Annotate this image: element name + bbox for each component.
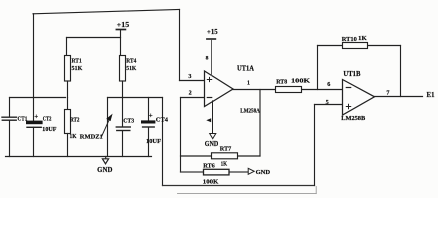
svg-text:CT3: CT3 [123, 117, 134, 124]
resistor RT6 [204, 169, 230, 175]
svg-text:1: 1 [247, 81, 250, 87]
wire RT4 bottom lead to node B [122, 81, 124, 98]
svg-text:10UF: 10UF [42, 126, 56, 133]
node A wire [10, 97, 66, 99]
wire RT2 bottom lead [67, 134, 69, 157]
capacitor CT3 [116, 127, 130, 131]
svg-text:RT6: RT6 [203, 162, 215, 169]
wire RT2 top lead [67, 98, 69, 110]
resistor RT4 [120, 56, 126, 82]
svg-text:RT7: RT7 [220, 146, 232, 153]
wire scan ghost line [178, 193, 317, 195]
svg-text:RMDZ1: RMDZ1 [80, 133, 103, 140]
resistor RT10 [343, 43, 368, 49]
wire left drop from top loop to node A / CT2 [33, 14, 35, 121]
wire pin5 horizontal into U1B [315, 104, 343, 106]
wire RT1 top lead [66, 38, 68, 56]
resistor RT2 [65, 110, 71, 134]
svg-text:+: + [149, 112, 153, 120]
wire CT3 bottom lead [122, 131, 124, 157]
svg-text:1K: 1K [70, 133, 78, 140]
svg-text:51K: 51K [72, 65, 84, 72]
resistor RT1 [65, 56, 71, 82]
wire CT1 top lead [9, 98, 11, 117]
wire pin2 drop [180, 98, 182, 173]
svg-text:5: 5 [326, 99, 329, 106]
wire up to pin 5 [314, 105, 316, 186]
wire RT1 bottom lead to node A [67, 81, 69, 98]
svg-text:6: 6 [327, 81, 330, 88]
svg-text:+15: +15 [117, 21, 130, 29]
wire pin3 horizontal into U1A [180, 80, 205, 82]
op-amp U1A [205, 71, 234, 107]
wire horizontal +15 rail to RT1 [67, 37, 121, 39]
wire RT7 feedback drop [259, 90, 261, 157]
svg-text:RT8: RT8 [276, 78, 287, 85]
svg-text:100K: 100K [291, 78, 310, 85]
svg-text:UT1A: UT1A [237, 65, 254, 72]
wire U1A pin 4 stem [212, 101, 214, 133]
svg-text:8: 8 [206, 56, 209, 62]
svg-text:1K: 1K [358, 35, 367, 42]
svg-text:E1: E1 [427, 92, 436, 99]
svg-text:RT10: RT10 [342, 36, 357, 43]
wire top loop horizontal [33, 10, 180, 14]
wire CT2 bottom lead [33, 127, 35, 156]
ground bus wire [6, 156, 152, 158]
pin 4 marker [206, 118, 211, 122]
svg-text:CT1: CT1 [18, 116, 28, 123]
svg-text:100K: 100K [203, 178, 219, 185]
capacitor CT2 (polarized) [26, 121, 43, 128]
wire pin3 drop from top loop [179, 10, 181, 81]
wire RT10 feedback left drop [317, 46, 319, 90]
ground symbol below pot [105, 157, 107, 159]
wire CT1 bottom lead [9, 121, 11, 157]
svg-text:7: 7 [386, 90, 389, 97]
wire U1A output row [233, 89, 343, 91]
svg-text:GND: GND [256, 169, 271, 176]
svg-text:RT2: RT2 [70, 116, 80, 123]
svg-text:1K: 1K [221, 161, 228, 168]
resistor RT7 [212, 153, 238, 159]
svg-text:10UF: 10UF [146, 138, 161, 145]
GND port arrow [248, 168, 254, 174]
potentiometer RMDZ1 body [107, 98, 109, 157]
svg-text:CT2: CT2 [43, 116, 52, 123]
svg-text:2: 2 [189, 90, 192, 97]
svg-text:LM258B: LM258B [341, 115, 366, 122]
resistor RT8 [276, 87, 302, 93]
op-amp U1B [343, 80, 375, 116]
capacitor CT4 (polarized) [141, 120, 155, 127]
svg-text:RT1: RT1 [72, 58, 82, 65]
wire U1A V+ stem pin 8 [211, 40, 213, 75]
svg-text:GND: GND [97, 167, 112, 174]
wire RT10 row [318, 45, 401, 47]
svg-text:GND: GND [205, 141, 219, 148]
wire RT6 row [181, 171, 249, 173]
wire +15 stem down to RT4 [120, 30, 122, 55]
svg-text:+15: +15 [207, 28, 218, 36]
svg-text:+: + [34, 113, 38, 121]
svg-text:RT4: RT4 [126, 58, 137, 65]
wire pin2 horizontal into U1A [181, 97, 205, 99]
wire RT7 row [181, 155, 261, 157]
svg-text:51K: 51K [126, 65, 137, 72]
wire U1B output feedback drop [400, 46, 402, 97]
ground symbol U1A [210, 134, 216, 139]
wire CT3 top lead [122, 98, 124, 127]
wire CT4 top lead [148, 98, 150, 121]
svg-text:CT4: CT4 [156, 117, 169, 124]
node B wire [108, 97, 163, 99]
power +15 bridge bar [116, 29, 125, 31]
wire node B drop to bottom loop [162, 98, 164, 186]
power +15 U1A bar [207, 38, 216, 40]
capacitor CT1 [2, 117, 17, 120]
wire bottom loop [163, 185, 315, 187]
wire U1B output to E1 [375, 96, 423, 98]
svg-text:LM258A: LM258A [240, 108, 260, 115]
svg-text:UT1B: UT1B [343, 71, 361, 78]
potentiometer arrow [102, 119, 110, 136]
svg-text:3: 3 [188, 73, 191, 80]
wire CT4 bottom lead [148, 128, 150, 157]
